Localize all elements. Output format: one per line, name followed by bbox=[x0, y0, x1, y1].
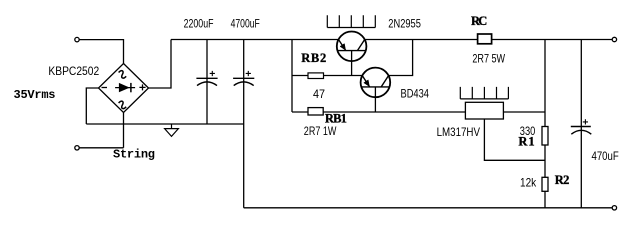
svg-text:BD434: BD434 bbox=[401, 87, 430, 101]
wire capacitor C1 leads bbox=[206, 40, 208, 125]
svg-text:4700uF: 4700uF bbox=[231, 16, 260, 30]
resistor R1 bbox=[542, 127, 548, 146]
diode inside bridge bbox=[115, 83, 135, 92]
ground symbol bbox=[165, 124, 179, 136]
capacitor C3 plus bbox=[583, 119, 588, 124]
minus sign inside bridge bbox=[102, 87, 108, 89]
wire ground rail bbox=[86, 123, 243, 125]
bridge rectifier KBPC2502 body bbox=[99, 64, 149, 113]
wire RB1 row to LM317 input bbox=[292, 111, 465, 113]
transistor Q1 2N2955 bbox=[337, 32, 367, 76]
capacitor C2 4700uF plates bbox=[233, 78, 254, 85]
wire bridge bottom lead to String terminal bbox=[123, 113, 125, 148]
terminal AC input 2 String bbox=[75, 146, 79, 150]
wire String terminal bbox=[79, 147, 123, 149]
resistor RB2 bbox=[308, 73, 324, 79]
resistor RB1 bbox=[308, 108, 323, 115]
capacitor C1 plus bbox=[210, 71, 215, 76]
AC tilde top inside bridge bbox=[117, 70, 127, 80]
svg-text:R2: R2 bbox=[555, 173, 570, 187]
wire RB2 row bbox=[292, 75, 362, 77]
wire bottom rail bbox=[244, 207, 613, 209]
svg-text:470uF: 470uF bbox=[592, 149, 619, 163]
svg-text:RC: RC bbox=[471, 14, 487, 28]
wire AC input 1 to bridge top bbox=[79, 40, 123, 64]
svg-text:35Vrms: 35Vrms bbox=[14, 88, 56, 102]
wire bridge right vertex up to positive rail bbox=[149, 40, 172, 89]
heatsink above transistor 2N2955 bbox=[327, 15, 375, 27]
svg-text:LM317HV: LM317HV bbox=[437, 125, 480, 139]
svg-text:2R7 1W: 2R7 1W bbox=[304, 124, 337, 138]
wire ground rail down to bottom rail bbox=[243, 124, 245, 208]
resistor RC bbox=[478, 34, 492, 44]
terminal output negative bbox=[612, 206, 616, 210]
resistor R2 bbox=[542, 177, 548, 191]
wire capacitor C2 leads bbox=[243, 40, 245, 125]
AC tilde bottom inside bridge bbox=[117, 100, 127, 110]
wire divider vertical R1 R2 chain bbox=[544, 40, 546, 208]
wire output capacitor C3 leads bbox=[580, 40, 582, 208]
wire bridge left vertex to ground rail bbox=[86, 88, 98, 124]
svg-text:2200uF: 2200uF bbox=[184, 16, 214, 30]
svg-text:R1: R1 bbox=[518, 134, 534, 148]
svg-text:RB2: RB2 bbox=[301, 51, 326, 65]
wire LM317 output to divider bbox=[503, 111, 545, 113]
capacitor C1 2200uF plates bbox=[196, 78, 217, 85]
capacitor C3 470uF plates bbox=[571, 127, 592, 135]
wire top positive rail right segment bbox=[365, 39, 613, 41]
wire top positive rail left segment bbox=[171, 39, 339, 41]
wire BD434 collector to top rail bbox=[389, 40, 413, 76]
terminal AC input 1 bbox=[75, 37, 79, 41]
heatsink above regulator LM317HV bbox=[460, 87, 508, 99]
regulator U1 LM317HV bbox=[465, 102, 503, 119]
terminal output positive bbox=[612, 37, 616, 41]
plus sign inside bridge bbox=[139, 84, 145, 90]
svg-text:2R7 5W: 2R7 5W bbox=[472, 51, 505, 65]
transistor Q2 BD434 bbox=[361, 68, 391, 112]
wire vertical feed to RB2 and RB1 bbox=[291, 40, 293, 113]
svg-text:2N2955: 2N2955 bbox=[388, 17, 421, 31]
svg-text:KBPC2502: KBPC2502 bbox=[48, 64, 99, 78]
capacitor C2 plus bbox=[246, 71, 251, 76]
svg-text:12k: 12k bbox=[520, 176, 537, 190]
wire LM317 ADJ to divider midpoint bbox=[484, 119, 545, 160]
svg-text:String: String bbox=[113, 148, 155, 162]
svg-text:47: 47 bbox=[313, 87, 325, 101]
